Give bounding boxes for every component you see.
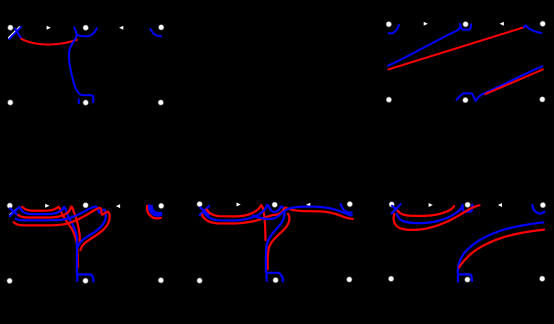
pinning dot E1 <box>389 202 394 207</box>
pinning dot C1 <box>7 203 12 208</box>
vortex trajectory red C second loop <box>18 206 80 244</box>
annihilation cross blue A <box>9 27 21 39</box>
marker triangle right B <box>424 22 428 26</box>
vortex trajectory red E outer arc <box>394 205 480 230</box>
pinning dot A6 <box>158 100 163 105</box>
pinning dot D2 <box>272 202 277 207</box>
pinning dot B4 <box>387 97 392 102</box>
pinning dot C5 <box>83 278 88 283</box>
vortex trajectory red C inner loop <box>22 207 78 268</box>
antivortex blue hook at dot B1 <box>389 25 399 33</box>
antivortex trajectory blue A hook under dot A2 <box>77 28 97 36</box>
antivortex blue B tail near dot B3 <box>524 25 541 32</box>
antivortex blue E stub leg <box>457 275 459 281</box>
marker triangle right A <box>47 26 51 30</box>
annihilation cross blue C <box>10 207 20 216</box>
pinning dot D5 <box>273 278 278 283</box>
pinning dot E5 <box>465 277 470 282</box>
antivortex blue C hook near dot C3 inner <box>152 206 162 213</box>
pinning dot E2 <box>465 202 470 207</box>
vortex red C hook near dot C3 <box>147 206 161 219</box>
vortex trajectory red B lower diagonal <box>485 70 542 95</box>
antivortex blue A stub <box>78 99 80 103</box>
pinning dot D6 <box>347 277 352 282</box>
pinning dot B3 <box>540 21 545 26</box>
marker triangle left D <box>306 203 310 207</box>
antivortex trajectory blue D outer arc to dot D3 <box>253 207 352 220</box>
antivortex trajectory blue E arc with U around dot E2 <box>397 205 473 224</box>
vortex red D S-descent to bottom pin <box>268 214 290 269</box>
antivortex blue D curl near dot D3 <box>341 204 352 213</box>
marker triangle right D <box>237 203 241 207</box>
vortex trajectory red E inner arc <box>398 206 455 216</box>
marker triangle left B <box>500 22 504 26</box>
annihilation cross white D <box>200 206 209 214</box>
antivortex trajectory blue B upper diagonal <box>388 24 471 66</box>
pinning dot D4 <box>197 278 202 283</box>
pinning dot B2 <box>463 22 468 27</box>
pinning dot A3 <box>159 25 164 30</box>
annihilation cross white C <box>10 207 19 215</box>
pinning dot A1 <box>8 25 13 30</box>
marker triangle right E <box>429 203 433 207</box>
antivortex blue E hook near dot E3 <box>532 205 544 214</box>
annihilation cross white E <box>392 205 400 213</box>
antivortex trajectory blue D loop with pin hook <box>204 205 284 281</box>
pinning dot E3 <box>541 203 546 208</box>
marker triangle right C <box>45 204 49 208</box>
vortex trajectory red A <box>21 39 77 45</box>
antivortex blue C hook near dot C3 outer <box>149 206 161 216</box>
vortex trajectory red E diagonal <box>459 230 544 268</box>
antivortex trajectory blue A arc near dot A3 <box>150 29 161 36</box>
antivortex trajectory blue C outer arc under dot C2 <box>16 206 106 248</box>
pinning dot A4 <box>8 100 13 105</box>
antivortex trajectory blue B lower diagonal with loop over dot B5 <box>457 66 543 100</box>
pinning dot D1 <box>197 202 202 207</box>
antivortex trajectory blue A main <box>69 28 93 103</box>
antivortex blue C stub leg <box>76 275 78 281</box>
pinning dot C3 <box>159 204 164 209</box>
annihilation cross blue E <box>392 204 401 213</box>
pinning dot B5 <box>463 98 468 103</box>
pinning dot A2 <box>83 25 88 30</box>
annihilation cross white A <box>9 27 20 38</box>
pinning dot B1 <box>386 22 391 27</box>
antivortex trajectory blue C inner loop with pin hook <box>20 207 93 282</box>
pinning dot B6 <box>540 97 545 102</box>
vortex trajectory red D inner loop <box>207 205 266 240</box>
vortex trajectory red B upper diagonal <box>388 27 523 69</box>
antivortex blue D stub leg <box>266 273 268 280</box>
annihilation cross blue D <box>200 206 209 215</box>
pinning dot C6 <box>159 278 164 283</box>
vortex trajectory red D outer arc to dot D3 <box>202 208 353 224</box>
pinning dot E6 <box>540 276 545 281</box>
pinning dot E4 <box>389 276 394 281</box>
marker triangle left C <box>116 204 120 208</box>
antivortex trajectory blue E diagonal with pin hook at dot E5 <box>458 222 544 281</box>
pinning dot A5 <box>83 100 88 105</box>
pinning dot C2 <box>83 203 88 208</box>
marker triangle left E <box>498 203 502 207</box>
pinning dot C4 <box>7 279 12 284</box>
marker triangle left A <box>119 26 123 30</box>
pinning dot D3 <box>347 202 352 207</box>
vortex trajectory red C outermost arc under dot C2 <box>14 208 110 250</box>
